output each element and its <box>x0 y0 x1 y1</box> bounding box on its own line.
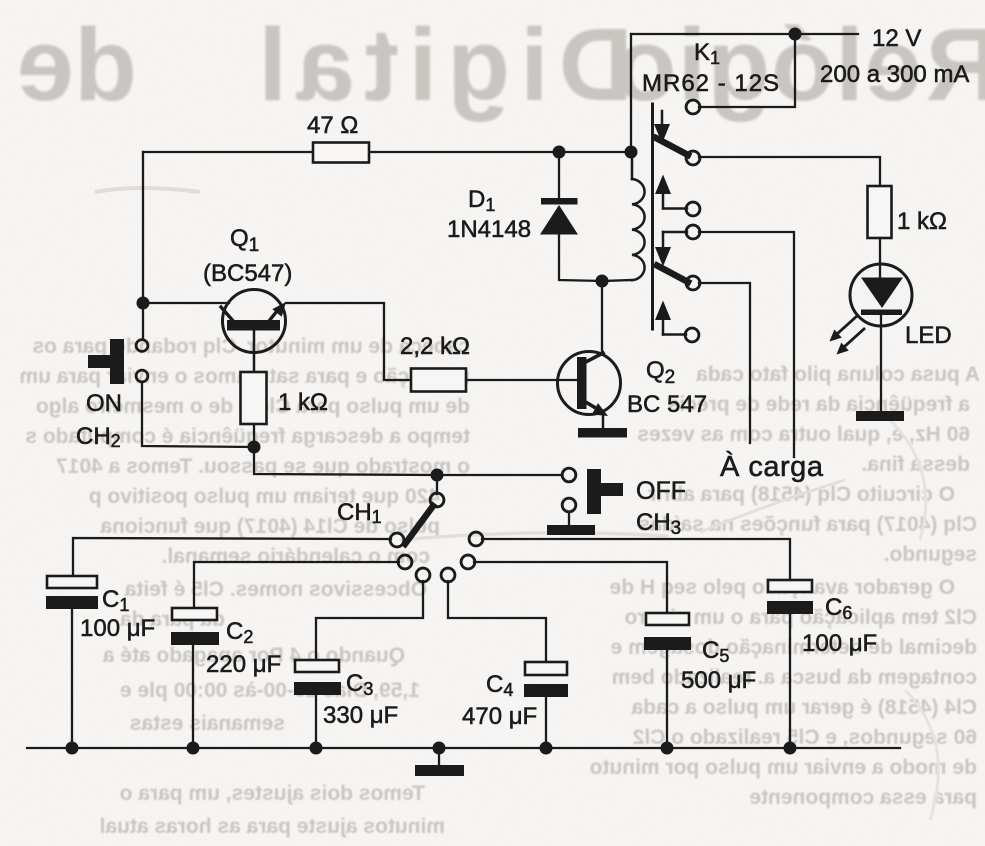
wire to OFF switch <box>437 474 561 476</box>
LED <box>830 264 952 355</box>
switch CH3 OFF pushbutton <box>562 468 686 539</box>
relay arrow down 1 <box>654 111 670 144</box>
svg-text:12 V: 12 V <box>872 25 921 52</box>
svg-text:MR62 - 12S: MR62 - 12S <box>642 70 780 97</box>
node junction C3 gnd <box>310 742 323 755</box>
node junction CH1 pivot <box>431 469 444 482</box>
svg-text:100 μF: 100 μF <box>80 615 155 642</box>
svg-text:1N4148: 1N4148 <box>447 216 531 243</box>
ground OFF switch <box>547 525 595 535</box>
resistor 2,2 kohm <box>411 369 466 392</box>
svg-text:Obcessivos nomes. Cl5 é feita: Obcessivos nomes. Cl5 é feita <box>124 578 427 601</box>
svg-text:100 μF: 100 μF <box>802 630 877 657</box>
svg-text:semanais estas: semanais estas <box>130 712 285 735</box>
relay blade 2 <box>657 266 688 283</box>
capacitor C3 <box>294 660 398 748</box>
svg-text:Digital: Digital <box>248 7 633 122</box>
ground main rail <box>415 748 464 776</box>
svg-text:1 kΩ: 1 kΩ <box>897 208 947 235</box>
svg-text:minutos ajuste para as horas a: minutos ajuste para as horas atual <box>100 815 445 838</box>
wire CH1 to C6 <box>482 539 790 580</box>
wire CH1 to C3 <box>316 581 423 660</box>
svg-text:BC 547: BC 547 <box>627 391 707 418</box>
svg-text:47 Ω: 47 Ω <box>307 112 358 139</box>
node junction C1 gnd <box>66 742 79 755</box>
node junction 12V rail <box>789 28 802 41</box>
wire CH1 to C4 <box>448 581 546 662</box>
wire coil feed from rail <box>630 34 632 152</box>
wire contact to 1k resistor <box>699 157 880 186</box>
svg-text:a freqüência da rede de precis: a freqüência da rede de precis <box>668 393 970 416</box>
node junction C2 gnd <box>187 742 200 755</box>
node junction coil top <box>625 146 638 159</box>
ground LED <box>856 411 904 421</box>
svg-text:LED: LED <box>905 322 952 349</box>
svg-text:500 μF: 500 μF <box>681 667 756 694</box>
relay contact common 1 <box>686 100 700 114</box>
transistor Q2 <box>558 352 708 429</box>
svg-text:segundo.: segundo. <box>884 543 977 566</box>
svg-text:1 kΩ: 1 kΩ <box>278 389 328 416</box>
wire D1 top lead <box>558 152 560 199</box>
relay arrow up 2 <box>655 301 686 335</box>
wire ON switch bottom <box>142 382 254 447</box>
wire load right branch <box>699 232 794 457</box>
svg-text:ON: ON <box>86 390 122 417</box>
wire D1 bottom lead <box>559 234 602 281</box>
wire relay common to 12V rail <box>699 34 795 107</box>
wire main rail right segment <box>369 151 631 153</box>
wire left rail to switch <box>142 303 144 339</box>
transistor Q1 <box>203 225 292 372</box>
diode D1 1N4148 <box>447 186 578 243</box>
wire coil bottom link <box>602 280 632 281</box>
switch CH2 ON pushbutton <box>76 339 148 451</box>
wire load left branch <box>699 283 750 443</box>
svg-text:200 a 300 mA: 200 a 300 mA <box>820 61 969 88</box>
relay blade 1 <box>656 138 688 155</box>
relay arrow down 2 <box>655 232 687 267</box>
svg-text:470 μF: 470 μF <box>462 703 537 730</box>
svg-text:À carga: À carga <box>720 450 824 483</box>
svg-text:com o calendário semanal.: com o calendário semanal. <box>162 545 430 568</box>
node junction B <box>248 441 261 454</box>
wire left rail down <box>142 152 144 303</box>
node junction C6 gnd <box>784 742 797 755</box>
node junction gnd stub <box>433 742 446 755</box>
node junction A <box>137 297 150 310</box>
svg-text:420 que teriam um pulso positi: 420 que teriam um pulso positivo p <box>89 485 440 508</box>
wire timing net jog <box>254 447 437 475</box>
capacitor C6 <box>767 580 877 748</box>
node junction coil bottom <box>596 275 609 288</box>
node junction C4 gnd <box>540 742 553 755</box>
relay contact NO 2 <box>686 276 700 290</box>
capacitor C2 <box>171 608 281 748</box>
svg-text:Temos dois ajustes, um para o: Temos dois ajustes, um para o <box>120 782 425 805</box>
wire ground rail <box>27 747 900 749</box>
relay contact NO 1 <box>686 151 700 165</box>
node junction D1 top <box>553 146 566 159</box>
capacitor C1 <box>46 576 155 748</box>
wire top supply rail <box>631 33 858 35</box>
ground Q2 emitter <box>578 428 627 438</box>
wire Q1 emitter run <box>286 303 411 380</box>
wire resistor to node B <box>253 424 255 447</box>
svg-text:60 segundos, e Cl5 realizado o: 60 segundos, e Cl5 realizado o Cl2 <box>633 726 977 749</box>
svg-text:de: de <box>17 7 137 122</box>
wire CH1 to C5 <box>474 562 667 613</box>
wire LED cathode lead <box>880 315 882 411</box>
wire resistor to LED <box>879 238 881 277</box>
svg-text:A pusa coluna pilo fato cada: A pusa coluna pilo fato cada <box>696 363 980 386</box>
wire CH1 to C1 <box>73 538 391 576</box>
relay K1 armature bar <box>651 104 654 329</box>
svg-text:1,59, Dias 20-00-às 00:00 ple: 1,59, Dias 20-00-às 00:00 ple e <box>120 679 420 702</box>
wire Q1 base wire <box>143 302 229 304</box>
node junction C5 gnd <box>661 742 674 755</box>
svg-text:pulso de Cl14 (4017) que funci: pulso de Cl14 (4017) que funciona <box>100 515 440 538</box>
relay contact aux 1 <box>686 202 700 216</box>
svg-text:de modo a enviar um pulso por: de modo a enviar um pulso por minuto <box>590 756 977 779</box>
svg-text:OFF: OFF <box>636 477 686 505</box>
relay K1 coil <box>632 152 645 280</box>
svg-text:330 μF: 330 μF <box>323 702 398 729</box>
svg-text:para essa componente: para essa componente <box>749 786 977 809</box>
relay arrow up 1 <box>655 175 687 209</box>
svg-text:60 Hz, e, qual outra com as ve: 60 Hz, e, qual outra com as vezes <box>637 423 970 446</box>
capacitor C4 <box>462 662 568 748</box>
svg-text:(BC547): (BC547) <box>203 260 292 287</box>
relay contact aux 2 <box>685 328 699 342</box>
resistor 1 kohm base Q1 <box>241 372 267 424</box>
resistor 47 ohm <box>313 143 369 163</box>
wire CH1 to C2 <box>194 562 399 608</box>
svg-text:220 μF: 220 μF <box>206 651 281 678</box>
relay contact common 2 <box>686 225 700 239</box>
faint scan smudges <box>95 188 200 192</box>
switch CH1 rotary <box>337 475 483 582</box>
wire 2,2k to Q2 base <box>466 379 577 381</box>
capacitor C5 <box>644 613 756 748</box>
wire main rail left segment <box>143 151 313 153</box>
wire OFF to ground <box>568 512 570 525</box>
svg-text:2,2 kΩ: 2,2 kΩ <box>400 333 470 360</box>
wire Q2 collector lead <box>601 281 603 354</box>
resistor 1 kohm LED <box>868 186 892 238</box>
